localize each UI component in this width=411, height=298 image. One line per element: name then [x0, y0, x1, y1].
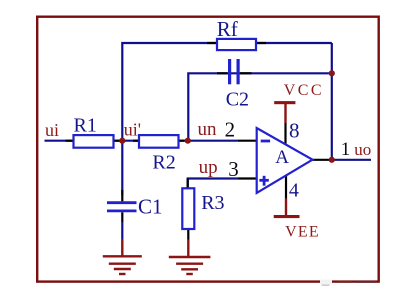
svg-text:VEE: VEE — [285, 223, 320, 240]
pin stub black: op-amp pin 8 supply — [284, 123, 286, 144]
wire: C1 bottom to ground net — [121, 222, 123, 239]
label VCC — [284, 82, 324, 99]
VEE power symbol — [274, 199, 300, 219]
svg-text:R1: R1 — [74, 114, 97, 136]
svg-text:uo: uo — [354, 140, 371, 159]
pin stub black: C2 right pin — [240, 72, 252, 74]
wire: up net from R3 corner to op-amp — [188, 179, 238, 189]
ground under C1 — [103, 256, 142, 274]
resistor R3 — [182, 188, 194, 229]
pin stub black: C2 left pin — [217, 72, 228, 74]
svg-text:R3: R3 — [201, 192, 224, 214]
svg-text:up: up — [199, 157, 218, 178]
resistor Rf — [217, 39, 256, 50]
wire: top feedback net from node ui' up and across to output vertical — [122, 43, 331, 141]
label R2 — [152, 151, 175, 173]
svg-text:un: un — [198, 119, 218, 140]
pin stub black: op-amp pin 3 non-inverting input — [238, 177, 258, 179]
svg-text:VCC: VCC — [284, 82, 324, 99]
pin stub black: Rf right pin — [256, 42, 266, 44]
wire: right vertical feedback from top wire down to output node — [331, 43, 333, 160]
net label ui' — [124, 120, 141, 140]
label R1 — [74, 114, 97, 136]
label Rf — [217, 17, 238, 41]
svg-text:A: A — [275, 147, 289, 168]
junction dot output node — [329, 157, 335, 163]
label VEE — [285, 223, 320, 240]
svg-text:R2: R2 — [152, 151, 175, 173]
pin stub black: R1 left pin — [66, 140, 74, 142]
wire: dark red stem into left ground — [121, 239, 123, 256]
border frame — [37, 17, 379, 282]
resistor R1 — [74, 135, 114, 148]
op-amp U1 triangle — [257, 128, 313, 193]
op-amp label A — [275, 147, 289, 168]
wire: main horizontal net R1 - ui' - R2 - un — [114, 140, 239, 142]
net label uo — [354, 140, 371, 159]
svg-text:1: 1 — [341, 139, 351, 160]
pin stub black: op-amp pin 2 inverting input — [238, 140, 258, 142]
net label up — [199, 157, 218, 178]
label R3 — [201, 192, 224, 214]
svg-text:Rf: Rf — [217, 17, 238, 41]
pin number 1 at output — [341, 139, 351, 160]
pin stub black: op-amp pin 1 output — [313, 159, 332, 161]
capacitor C2 — [230, 59, 239, 84]
svg-text:C2: C2 — [226, 89, 249, 111]
pin stub black: R3 bottom pin — [187, 229, 189, 240]
pin number 2 — [225, 117, 236, 141]
svg-text:ui: ui — [45, 120, 59, 140]
pin number 3 — [228, 157, 239, 181]
pin stub black: R3 top pin — [187, 179, 189, 189]
wire: dark red stem into right ground — [187, 240, 189, 257]
svg-text:3: 3 — [228, 157, 239, 181]
junction dot node un — [185, 138, 191, 144]
pin number 4 — [289, 179, 299, 201]
svg-text:8: 8 — [289, 119, 300, 143]
junction dot C2/feedback — [329, 70, 335, 76]
pin stub black: R2 right pin — [179, 140, 185, 142]
label C2 — [226, 89, 249, 111]
op-amp minus input marker — [261, 140, 270, 143]
ground under R3 — [169, 257, 211, 274]
net label ui — [45, 120, 59, 140]
resistor R2 — [139, 135, 179, 148]
capacitor C1 — [107, 203, 137, 211]
svg-text:C1: C1 — [138, 195, 163, 219]
svg-text:2: 2 — [225, 117, 236, 141]
pin stub black: C1 top pin — [121, 190, 123, 201]
junction dot node ui' — [119, 138, 125, 144]
wire: node ui' down to C1 — [121, 141, 123, 195]
label C1 — [138, 195, 163, 219]
wire: output net from node to right — [332, 159, 371, 161]
svg-text:4: 4 — [289, 179, 299, 201]
svg-text:ui': ui' — [124, 120, 141, 140]
pin stub black: R1 right pin — [114, 140, 120, 142]
pin stub black: Rf left pin — [207, 42, 217, 44]
pin stub black: C1 bottom pin — [121, 212, 123, 222]
op-amp plus input marker — [259, 176, 268, 186]
wire: C2 branch from node un up and across to right vertical — [188, 73, 331, 140]
net label un — [198, 119, 218, 140]
pin stub black: op-amp pin 4 supply — [285, 176, 287, 199]
pin stub black: R2 left pin — [133, 140, 139, 142]
pin number 8 — [289, 119, 300, 143]
watermark remnant on bottom border — [320, 280, 376, 286]
VCC power symbol — [274, 101, 295, 123]
wire: input net ui to R1 — [45, 140, 74, 142]
